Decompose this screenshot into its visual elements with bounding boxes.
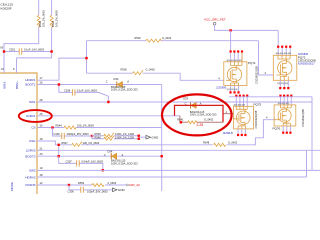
wire HDRV1 riser to R502 / R536 node bbox=[86, 41, 88, 73]
svg-text:100V_0.25A_SOD-323: 100V_0.25A_SOD-323 bbox=[111, 87, 138, 91]
pin SW2 (19) bbox=[37, 169, 320, 171]
svg-text:VOSNS: VOSNS bbox=[25, 183, 36, 187]
svg-text:100_1%_0603: 100_1%_0603 bbox=[42, 10, 46, 27]
svg-text:MODE: MODE bbox=[10, 182, 14, 191]
svg-text:BOOT2: BOOT2 bbox=[25, 154, 36, 158]
svg-text:C301: C301 bbox=[9, 47, 16, 51]
capacitor C299 (BOOT1-SW1) bbox=[59, 85, 108, 103]
svg-text:G_0402: G_0402 bbox=[162, 36, 172, 40]
svg-text:D33: D33 bbox=[183, 97, 188, 101]
svg-text:K0S20F: K0S20F bbox=[1, 7, 12, 11]
ground net arrow (VOSNS) bbox=[113, 188, 118, 192]
IC U30 part-number text top-left bbox=[1, 3, 14, 11]
pin BNS+ (top pin wire) bbox=[16, 58, 18, 73]
capacitor C301 bbox=[4, 51, 52, 53]
svg-text:0.1uF_16V_0603: 0.1uF_16V_0603 bbox=[77, 88, 97, 92]
capacitor C306 (VOSNS) bbox=[69, 185, 113, 190]
pin HDRV1 (17) bbox=[37, 58, 87, 80]
svg-text:C299: C299 bbox=[64, 88, 71, 92]
svg-text:R546: R546 bbox=[95, 135, 102, 139]
svg-text:CSD16322Q5B: CSD16322Q5B bbox=[254, 110, 258, 128]
diode D34 (on BOOT2 wire) bbox=[104, 149, 138, 165]
svg-text:A2N30001E17: A2N30001E17 bbox=[298, 62, 315, 66]
diode D30 (on BOOT1 wire) bbox=[106, 77, 138, 92]
pin CSG (18) bbox=[37, 120, 274, 145]
svg-text:C306: C306 bbox=[68, 189, 75, 193]
svg-text:PQ76: PQ76 bbox=[273, 126, 281, 130]
svg-text:100_1%_0603: 100_1%_0603 bbox=[77, 123, 94, 127]
net stub CRV_A0 (red) bbox=[127, 184, 129, 186]
svg-text:D30: D30 bbox=[114, 77, 119, 81]
svg-text:D34: D34 bbox=[108, 149, 113, 153]
svg-text:C: C bbox=[104, 153, 106, 157]
resistor R547 bbox=[72, 142, 83, 147]
svg-text:CS: CS bbox=[31, 126, 35, 130]
resistor R545 (sense 0.004) bbox=[92, 135, 139, 137]
svg-text:CRV_A0: CRV_A0 bbox=[129, 183, 140, 187]
svg-text:SW2: SW2 bbox=[29, 168, 36, 172]
svg-text:PQ71: PQ71 bbox=[248, 61, 256, 65]
svg-text:A: A bbox=[122, 153, 124, 157]
svg-text:C: C bbox=[106, 79, 108, 83]
svg-text:0.04uF_16V_0603: 0.04uF_16V_0603 bbox=[82, 160, 104, 164]
svg-text:R548: R548 bbox=[203, 141, 210, 145]
resistor R552 (VOSNS) bbox=[92, 184, 104, 187]
svg-text:100V_0.25A_SOD-323: 100V_0.25A_SOD-323 bbox=[111, 161, 138, 165]
svg-text:0_0603: 0_0603 bbox=[108, 181, 117, 185]
pin LDRV2 (21) bbox=[37, 149, 320, 151]
diode D33 loop (LDRV1 to PQ75 gate) bbox=[175, 105, 234, 122]
svg-text:G_0402: G_0402 bbox=[146, 67, 156, 71]
capacitor C302 (CS filter) bbox=[53, 128, 93, 137]
transistor PQ75 bbox=[223, 95, 262, 136]
svg-text:R544: R544 bbox=[56, 123, 63, 127]
svg-text:R541: R541 bbox=[177, 117, 184, 121]
transistor PQ72 bbox=[273, 46, 316, 90]
svg-text:R504: R504 bbox=[51, 20, 55, 27]
pin HDRV2 (18) bbox=[37, 176, 307, 178]
svg-text:CSG: CSG bbox=[29, 139, 36, 143]
resistor R503 (vertical, top) bbox=[4, 0, 39, 52]
red ellipse annotation around D33/R541 area bbox=[162, 94, 232, 135]
IC U30 controller box (left, cropped) bbox=[0, 73, 37, 194]
svg-text:C302: C302 bbox=[54, 132, 61, 136]
resistor R544 (on CS wire) bbox=[64, 126, 76, 129]
svg-text:BNS+: BNS+ bbox=[15, 81, 19, 89]
svg-text:100V_0.25A_SOD-323: 100V_0.25A_SOD-323 bbox=[190, 113, 217, 117]
resistor R504 (vertical, top) bbox=[51, 0, 53, 52]
wire VCC to PQ72 drain pins bbox=[277, 30, 279, 46]
red ellipse annotation around LDRV1 pin bbox=[19, 110, 52, 122]
svg-text:J22SB-B: J22SB-B bbox=[216, 86, 227, 90]
svg-text:2.26: 2.26 bbox=[197, 123, 204, 127]
svg-text:R545: R545 bbox=[95, 132, 102, 136]
ground net arrow (CS sense) bbox=[139, 136, 146, 138]
svg-text:R547: R547 bbox=[62, 141, 69, 145]
wire R536 to PQ71 gate bbox=[180, 73, 224, 80]
svg-text:100pF_50V_0603: 100pF_50V_0603 bbox=[87, 189, 108, 193]
svg-text:G_0402: G_0402 bbox=[204, 117, 214, 121]
svg-text:SW1: SW1 bbox=[29, 100, 36, 104]
transistor PQ71 bbox=[216, 50, 259, 93]
wire VCC to PQ71 drain pins bbox=[230, 30, 232, 50]
svg-text:1(S) 2(S) 3(S): 1(S) 2(S) 3(S) bbox=[227, 89, 239, 91]
red trace annotation over D33 loop bbox=[175, 105, 224, 122]
svg-text:G_0402: G_0402 bbox=[228, 141, 238, 145]
pin CS (16) bbox=[37, 127, 162, 129]
svg-text:A: A bbox=[127, 79, 129, 83]
svg-text:R502: R502 bbox=[135, 36, 142, 40]
pin IONS (top pin wire) bbox=[3, 0, 5, 73]
svg-text:GND: GND bbox=[152, 135, 160, 139]
wire node below C301 to box bbox=[17, 52, 52, 58]
svg-text:LDRV2: LDRV2 bbox=[26, 149, 36, 153]
svg-text:CSD16322Q5B: CSD16322Q5B bbox=[301, 109, 305, 127]
svg-text:100_1%_0603: 100_1%_0603 bbox=[55, 10, 59, 27]
capacitor C307 (BOOT2-SW2) bbox=[59, 156, 103, 170]
svg-text:J22SB-B: J22SB-B bbox=[223, 131, 234, 135]
svg-text:HDRV2: HDRV2 bbox=[25, 176, 35, 180]
resistor R548 (on CSG/gate wire) bbox=[214, 143, 226, 146]
resistor R502 bbox=[87, 40, 259, 42]
svg-text:CSD16322Q5B: CSD16322Q5B bbox=[255, 66, 259, 84]
resistor R546 (sense 0.004) bbox=[92, 136, 139, 139]
svg-text:1(S) 2(S) 3(S): 1(S) 2(S) 3(S) bbox=[277, 83, 289, 85]
svg-text:0.004_1%_1206: 0.004_1%_1206 bbox=[115, 132, 134, 136]
svg-text:R536: R536 bbox=[121, 67, 128, 71]
svg-text:R503: R503 bbox=[38, 20, 42, 27]
svg-text:R552: R552 bbox=[78, 181, 85, 185]
svg-text:C307: C307 bbox=[66, 160, 73, 164]
svg-text:4(D) 4(D) 4(D) 4(D): 4(D) 4(D) 4(D) 4(D) bbox=[276, 53, 292, 55]
wire BOOT1/D30 anode down the right bbox=[161, 85, 163, 191]
svg-text:0.1uF_16V_0603: 0.1uF_16V_0603 bbox=[24, 47, 44, 51]
pin SW1 (28) bbox=[37, 101, 312, 103]
resistor R536 bbox=[87, 72, 181, 74]
svg-text:PQ75: PQ75 bbox=[254, 102, 262, 106]
svg-text:LDRV1: LDRV1 bbox=[26, 114, 36, 118]
svg-text:V5: V5 bbox=[0, 46, 4, 50]
pin LDRV1 (25) bbox=[37, 115, 180, 117]
svg-text:100_1%_0603: 100_1%_0603 bbox=[83, 141, 100, 145]
pin BOOT1 (16) bbox=[37, 84, 162, 86]
resistor R541 bbox=[180, 116, 223, 123]
svg-text:1000pF_25V_0603: 1000pF_25V_0603 bbox=[67, 132, 90, 136]
transistor PQ76 bbox=[266, 95, 305, 134]
wire bottom ground lattice bbox=[229, 97, 312, 177]
pin VOSNS (12) bbox=[37, 184, 127, 186]
svg-text:BOOT1: BOOT1 bbox=[25, 82, 36, 86]
svg-text:IONS: IONS bbox=[3, 82, 7, 89]
node junction dots (red) bbox=[3, 50, 53, 52]
svg-text:0.004_1%_1206: 0.004_1%_1206 bbox=[115, 135, 134, 139]
svg-text:GND: GND bbox=[118, 188, 126, 192]
wire R502 to PQ72 gate bbox=[259, 41, 274, 75]
pin BOOT2 (20) bbox=[37, 155, 162, 157]
svg-text:VCC_SRC_FET: VCC_SRC_FET bbox=[204, 18, 226, 22]
